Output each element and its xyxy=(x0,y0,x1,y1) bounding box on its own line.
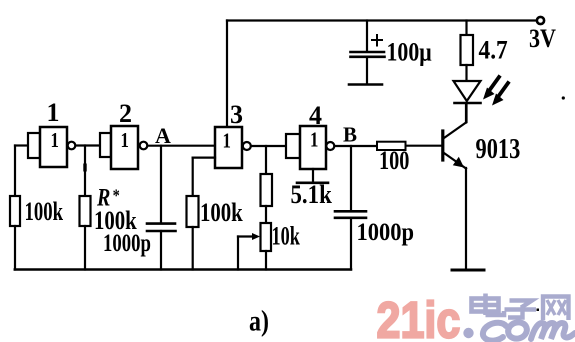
gate U4 inner label 1 xyxy=(310,129,318,152)
terminal 3V xyxy=(537,17,544,24)
transistor Q1 base bar xyxy=(441,131,444,160)
svg-text:100: 100 xyxy=(379,147,409,176)
value label 100k of R2 xyxy=(94,207,138,236)
gate U4 output bubble xyxy=(326,142,334,150)
wire gate2 output through node A to gate3 xyxy=(148,145,216,147)
potentiometer wiper arrow xyxy=(238,233,260,270)
svg-text:1: 1 xyxy=(47,98,60,127)
value label 5.1k xyxy=(291,181,333,210)
value label 100 of R5 xyxy=(379,147,409,176)
resistor R2 Rstar 100k xyxy=(80,196,91,226)
gate U3 body xyxy=(215,127,242,168)
transistor Q1 emitter xyxy=(444,153,466,169)
capacitor C1 1000p plates xyxy=(147,224,176,231)
wire R4 to potentiometer xyxy=(265,206,267,223)
LED light arrow 2 xyxy=(492,83,508,106)
svg-text:3V: 3V xyxy=(529,25,557,53)
wire stem resistor R6 bottom xyxy=(465,65,467,81)
wire base lead xyxy=(406,145,442,147)
gate U4 body xyxy=(300,126,326,169)
label 3V xyxy=(529,25,557,53)
svg-text:a): a) xyxy=(249,304,269,337)
wire gate4 bottom stem xyxy=(312,169,314,182)
transistor Q1 collector xyxy=(444,104,466,138)
capacitor C3 1000p plates xyxy=(335,211,366,218)
gate U1 inner label 1 xyxy=(51,129,59,152)
ground bar under C2 xyxy=(349,83,382,86)
svg-text:100μ: 100μ xyxy=(387,39,432,67)
watermark character zi xyxy=(505,301,537,318)
capacitor C2 100u plates xyxy=(351,52,385,57)
wire gate3 output to gate4 xyxy=(251,145,286,147)
label Rstar of R2 xyxy=(96,183,120,211)
wire C1 bottom lead xyxy=(160,231,162,270)
gate U3 inner label 1 xyxy=(223,130,231,153)
wire gate4 output through node B xyxy=(335,145,378,147)
potentiometer RP 10k body xyxy=(261,223,272,251)
wire node A drop to C1 xyxy=(160,146,162,224)
svg-text:1: 1 xyxy=(310,129,318,152)
wire C3 bottom lead xyxy=(350,218,352,270)
wire top power rail xyxy=(227,19,537,21)
value label 10k of RP xyxy=(272,221,301,250)
svg-text:1: 1 xyxy=(51,129,59,152)
gate U1 body xyxy=(40,127,67,167)
gate U4 input tab xyxy=(286,134,300,158)
LED D1 triangle xyxy=(454,81,481,101)
wire from rail down to gate 3 top xyxy=(226,21,228,128)
noise speck xyxy=(537,309,540,312)
svg-text:3: 3 xyxy=(230,100,243,129)
svg-text:100k: 100k xyxy=(200,199,244,228)
gate U2 input tab xyxy=(100,133,111,157)
value label 100k of R3 xyxy=(200,199,244,228)
subfigure label a) xyxy=(249,304,269,337)
LED D1 cathode bar xyxy=(455,102,481,105)
wire junction drop to R2 xyxy=(84,146,86,197)
svg-text:B: B xyxy=(343,123,357,147)
wire left input branch xyxy=(15,146,28,197)
watermark com script xyxy=(483,320,575,341)
watermark dot of .com xyxy=(463,328,473,338)
wire R3 bottom lead xyxy=(192,227,194,270)
value label 100k of R1 xyxy=(25,197,64,226)
value label 4.7 of R6 xyxy=(479,36,508,64)
resistor R5 100 xyxy=(377,142,406,150)
svg-text:21ic: 21ic xyxy=(377,292,461,342)
watermark character wang xyxy=(543,297,569,321)
gate U2 inner label 1 xyxy=(121,129,129,152)
wire stem capacitor C2 bottom xyxy=(366,57,368,84)
wire pot bottom lead xyxy=(265,251,267,270)
wire node B drop to C3 xyxy=(350,146,352,211)
svg-text:4: 4 xyxy=(309,101,322,130)
resistor R4 xyxy=(261,174,273,206)
plus sign of C2 xyxy=(372,35,382,46)
gate U1 input tab xyxy=(28,133,40,158)
svg-text:9013: 9013 xyxy=(476,134,521,165)
gate U2 body xyxy=(111,126,138,169)
gate U2 output bubble xyxy=(140,142,148,150)
svg-text:2: 2 xyxy=(119,99,132,128)
svg-text:*: * xyxy=(113,185,120,206)
svg-text:1: 1 xyxy=(121,129,129,152)
wire gate1 output to gate2 xyxy=(76,144,101,146)
svg-text:4.7: 4.7 xyxy=(479,36,508,64)
bar under gate4 (5.1k) xyxy=(297,182,328,185)
value label 100u of C2 xyxy=(387,39,432,67)
watermark 21ic xyxy=(377,292,461,342)
wire R2 bottom lead xyxy=(84,226,86,270)
svg-text:100k: 100k xyxy=(25,197,64,226)
value label 1000p of C3 xyxy=(357,219,414,246)
wire LED cathode lead xyxy=(465,103,467,122)
svg-text:1: 1 xyxy=(223,130,231,153)
svg-text:5.1k: 5.1k xyxy=(291,181,333,210)
wire stem capacitor C2 top xyxy=(366,21,368,52)
label 9013 of Q1 xyxy=(476,134,521,165)
svg-text:10k: 10k xyxy=(272,221,301,250)
noise speck top right xyxy=(562,96,565,99)
wire bottom rail xyxy=(15,268,351,271)
watermark character dian xyxy=(471,294,504,316)
wire stem resistor R6 top xyxy=(465,21,467,36)
svg-text:A: A xyxy=(155,123,171,148)
wire gate3 second input xyxy=(193,158,215,196)
ground xyxy=(452,269,484,272)
LED light arrow 1 xyxy=(483,77,499,100)
junction blob xyxy=(83,164,86,172)
resistor R1 100k xyxy=(10,196,20,226)
svg-text:1000p: 1000p xyxy=(357,219,414,246)
wire junction drop to R4 xyxy=(265,146,267,174)
svg-text:1000p: 1000p xyxy=(103,228,151,256)
wire emitter lead xyxy=(465,168,467,270)
wire R1 bottom lead xyxy=(14,226,16,270)
value label 1000p of C1 xyxy=(103,228,151,256)
gate U1 output bubble xyxy=(68,142,76,150)
resistor R3 100k xyxy=(187,196,199,227)
resistor R6 4.7 xyxy=(461,35,474,65)
gate U3 output bubble xyxy=(243,142,251,150)
